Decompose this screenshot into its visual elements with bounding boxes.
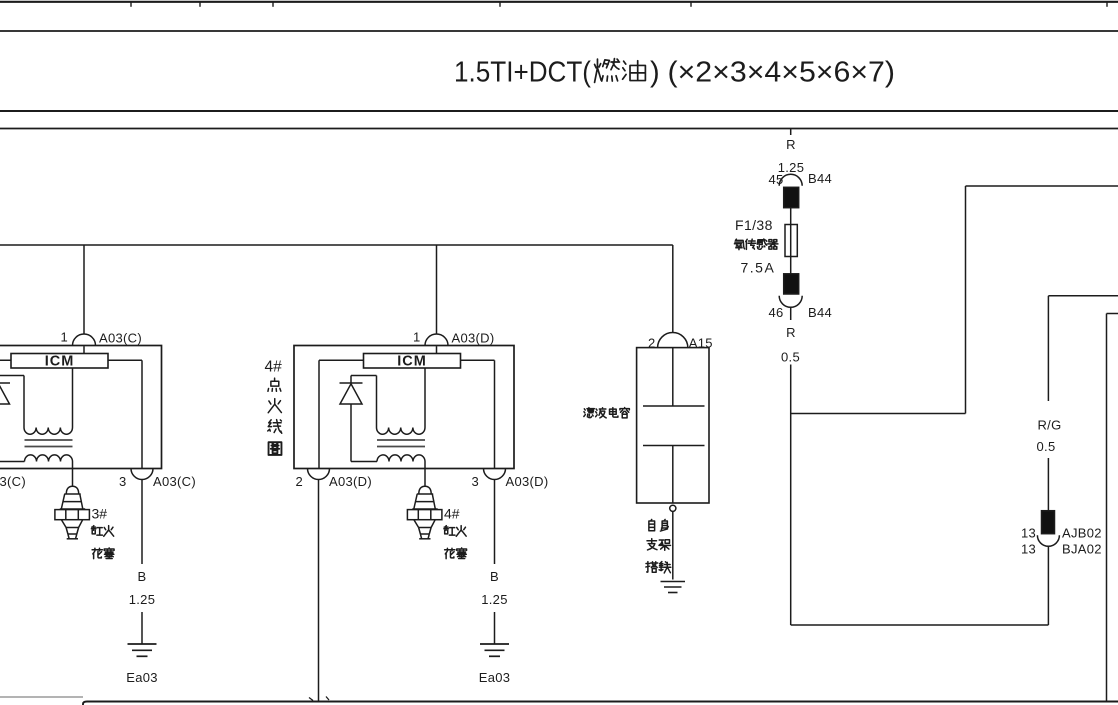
svg-text:3: 3 xyxy=(471,474,479,489)
svg-text:ICM: ICM xyxy=(397,353,427,369)
svg-text:Ea03: Ea03 xyxy=(126,670,158,685)
svg-text:ICM: ICM xyxy=(45,353,75,369)
svg-text:2: 2 xyxy=(648,336,656,351)
svg-text:A03(C): A03(C) xyxy=(0,474,26,489)
svg-text:AJB02: AJB02 xyxy=(1062,526,1102,541)
svg-text:B44: B44 xyxy=(808,305,832,320)
svg-text:2: 2 xyxy=(295,474,303,489)
svg-text:R: R xyxy=(786,325,796,340)
svg-text:3: 3 xyxy=(119,474,127,489)
svg-text:R: R xyxy=(786,137,796,152)
svg-text:4#: 4# xyxy=(444,506,460,522)
svg-text:46: 46 xyxy=(768,305,783,320)
svg-text:0.5: 0.5 xyxy=(781,350,800,365)
svg-text:(×2×3×4×5×6×7): (×2×3×4×5×6×7) xyxy=(668,57,896,89)
svg-text:B44: B44 xyxy=(808,171,832,186)
svg-text:1.5TI+DCT(: 1.5TI+DCT( xyxy=(454,57,591,89)
svg-text:13: 13 xyxy=(1021,526,1036,541)
svg-text:1.25: 1.25 xyxy=(481,592,508,607)
svg-text:): ) xyxy=(650,57,660,89)
svg-text:A03(D): A03(D) xyxy=(329,474,372,489)
svg-text:B: B xyxy=(138,569,147,584)
svg-text:3#: 3# xyxy=(92,506,108,522)
svg-text:13: 13 xyxy=(1021,542,1036,557)
svg-text:7.5A: 7.5A xyxy=(741,260,776,276)
svg-text:A03(D): A03(D) xyxy=(506,474,549,489)
svg-text:A03(C): A03(C) xyxy=(153,474,196,489)
svg-text:A03(C): A03(C) xyxy=(99,331,142,346)
svg-text:1: 1 xyxy=(413,330,421,345)
svg-text:R/G: R/G xyxy=(1037,418,1061,433)
svg-text:0.5: 0.5 xyxy=(1037,439,1056,454)
svg-text:1.25: 1.25 xyxy=(129,592,156,607)
svg-text:4#: 4# xyxy=(265,359,283,376)
svg-text:A15: A15 xyxy=(689,336,713,351)
svg-text:BJA02: BJA02 xyxy=(1062,542,1102,557)
svg-text:A03(D): A03(D) xyxy=(452,331,495,346)
svg-text:F1/38: F1/38 xyxy=(735,217,773,233)
svg-text:1: 1 xyxy=(60,330,68,345)
svg-text:B: B xyxy=(490,569,499,584)
svg-text:45: 45 xyxy=(768,172,783,187)
svg-text:Ea03: Ea03 xyxy=(479,670,511,685)
